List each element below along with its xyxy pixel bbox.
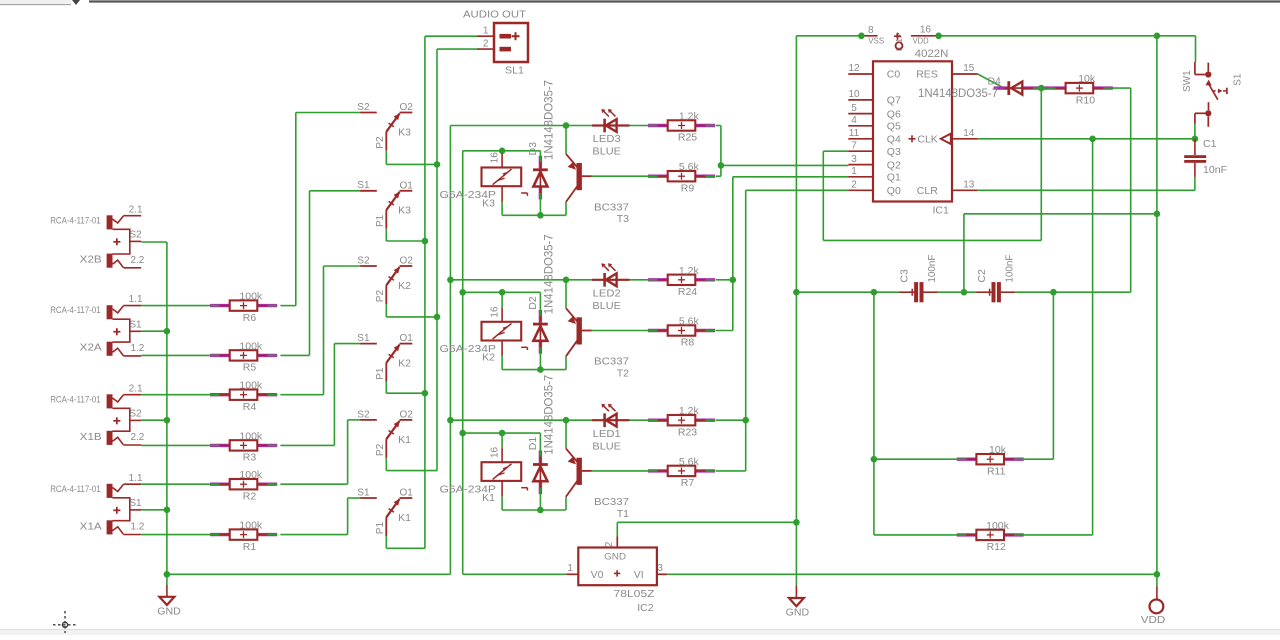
svg-text:R3: R3	[243, 452, 257, 464]
wire R3 right	[280, 444, 334, 446]
wire riser R3-K2l	[333, 344, 335, 446]
wire K3u common	[385, 151, 387, 165]
resistor R1 100k	[210, 520, 278, 553]
wire T1 collector	[565, 420, 567, 448]
wire Q3 riser up to D4 node	[1040, 88, 1042, 240]
svg-text:K3: K3	[398, 126, 411, 138]
svg-text:S2: S2	[129, 408, 142, 419]
diode D2 1N4148DO35-7	[527, 234, 555, 354]
wire K2l common	[385, 382, 387, 394]
wire CLR to C1	[1194, 177, 1196, 190]
relay contact K3 (S2-O2)	[357, 102, 413, 151]
resistor R5 100k	[210, 340, 278, 373]
svg-text:S2: S2	[129, 229, 142, 240]
svg-text:IC2: IC2	[637, 602, 654, 614]
svg-text:K1: K1	[398, 434, 411, 446]
wire riser R1-K1l	[347, 498, 349, 535]
wire LED-cathode riser	[449, 126, 451, 575]
wire R12 left	[874, 534, 957, 536]
svg-text:10: 10	[848, 89, 860, 100]
wire to LED1	[566, 419, 592, 421]
svg-text:78L05Z: 78L05Z	[614, 588, 656, 600]
svg-text:BLUE: BLUE	[592, 146, 621, 158]
svg-text:R6: R6	[243, 312, 257, 324]
svg-text:S1: S1	[1232, 73, 1243, 86]
resistor R23 1,2k	[648, 405, 716, 438]
status bar bottom strip	[0, 630, 1280, 636]
svg-text:GND: GND	[786, 606, 810, 618]
svg-text:R2: R2	[243, 490, 257, 502]
wire Q0 to IC1 pin2	[746, 189, 849, 191]
wire T3 collector	[565, 126, 567, 154]
wire vertical net SL1-1	[424, 36, 426, 548]
svg-text:R11: R11	[987, 465, 1006, 477]
svg-text:O2: O2	[400, 102, 414, 113]
svg-text:2: 2	[604, 541, 615, 547]
svg-text:1.1: 1.1	[129, 294, 143, 305]
junction	[871, 289, 878, 296]
svg-text:10k: 10k	[1078, 73, 1096, 85]
junction	[537, 366, 544, 373]
svg-text:1N4148DO35-7: 1N4148DO35-7	[543, 375, 555, 455]
wire emitter rail K3	[502, 214, 566, 216]
svg-text:S1: S1	[357, 333, 370, 344]
wire RES to D4 (diagonal)	[978, 74, 1004, 88]
ground GND (VSS rail)	[786, 598, 810, 618]
svg-text:R10: R10	[1076, 94, 1095, 106]
svg-text:Q3: Q3	[887, 146, 901, 158]
svg-text:14: 14	[963, 128, 975, 139]
svg-text:2.2: 2.2	[130, 255, 144, 266]
svg-text:100k: 100k	[239, 469, 263, 481]
wire bottom rail left part	[167, 573, 451, 575]
svg-text:Q6: Q6	[887, 108, 901, 120]
svg-text:K2: K2	[398, 358, 411, 370]
wire D2 anode	[539, 354, 541, 370]
junction	[164, 571, 171, 578]
svg-text:O2: O2	[400, 410, 414, 421]
svg-text:S1: S1	[357, 180, 370, 191]
wire LED1 row left	[450, 419, 566, 421]
wire X1A S1 to rail	[141, 509, 167, 511]
resistor R6 100k	[210, 291, 278, 324]
svg-text:1.2: 1.2	[130, 522, 144, 533]
svg-text:VSS: VSS	[868, 36, 884, 46]
browser/tab chrome top-left	[0, 0, 80, 5]
svg-text:3: 3	[657, 563, 663, 574]
wire Q3 across	[823, 239, 1041, 241]
resistor R3 100k	[210, 430, 278, 463]
svg-text:5,6k: 5,6k	[679, 316, 700, 328]
svg-text:2: 2	[483, 38, 489, 49]
svg-text:4022N: 4022N	[915, 48, 949, 60]
svg-text:RES: RES	[916, 69, 938, 81]
transistor T3 BC337	[566, 154, 629, 225]
diode D3 1N4148DO35-7	[527, 80, 555, 200]
wire riser Q2 node	[720, 126, 722, 177]
wire K1l common	[385, 536, 387, 548]
wire X1A 1.2 to R1	[141, 534, 210, 536]
svg-text:1.2: 1.2	[130, 343, 144, 354]
wire K2u to net2	[386, 316, 437, 318]
svg-text:S2: S2	[357, 102, 370, 113]
wire Q2 to IC1 pin3	[721, 164, 848, 166]
resistor R12 100k	[956, 520, 1024, 553]
wire coil K1 bottom	[501, 497, 503, 510]
svg-text:S1: S1	[357, 487, 370, 498]
junction	[447, 417, 454, 424]
junction	[422, 390, 429, 397]
svg-text:R5: R5	[243, 362, 257, 374]
switch SW1 S1	[1182, 62, 1244, 127]
wire CLK riser to R12	[1092, 139, 1094, 535]
svg-text:SW1: SW1	[1182, 70, 1193, 92]
wire K2u common	[385, 304, 387, 317]
power VDD symbol	[1141, 600, 1166, 627]
wire +5V coil riser	[462, 151, 464, 575]
svg-text:100k: 100k	[239, 291, 263, 303]
svg-text:D1: D1	[527, 437, 539, 451]
wire R10 right	[1113, 87, 1131, 89]
wire cap row left	[796, 291, 898, 293]
svg-text:T3: T3	[617, 213, 629, 225]
wire coil K2 top pin	[501, 292, 503, 307]
wire R2 right	[280, 483, 347, 485]
svg-text:K1: K1	[398, 512, 411, 524]
svg-text:RCA-4-117-01: RCA-4-117-01	[50, 215, 100, 226]
wire riser R5-K3l	[309, 191, 311, 356]
svg-text:CLK: CLK	[917, 134, 937, 146]
svg-text:R4: R4	[243, 401, 257, 413]
junction	[434, 161, 441, 168]
wire CLK net	[978, 138, 1195, 140]
resistor R8 5,6k	[648, 316, 716, 349]
resistor R9 5,6k	[648, 161, 716, 194]
wire Q3 from IC1 pin7	[823, 150, 848, 152]
wire K3l common	[385, 229, 387, 241]
wire T1 emitter	[565, 497, 567, 510]
wire T2 emitter	[565, 356, 567, 369]
svg-text:8: 8	[868, 25, 874, 36]
svg-text:P2: P2	[375, 136, 386, 149]
IC1 power gate IC1P	[861, 25, 938, 52]
svg-text:VDD: VDD	[913, 36, 929, 46]
wire SL1 pin2 to bus	[437, 48, 477, 50]
relay contact K2 (S1-O1)	[357, 333, 413, 382]
wire IC2 gnd up	[616, 522, 618, 536]
wire bottom rail right part	[667, 573, 1157, 575]
vdd stub	[1156, 586, 1158, 600]
svg-text:C3: C3	[899, 269, 911, 283]
gnd stub	[166, 585, 168, 597]
svg-text:R9: R9	[681, 182, 695, 194]
junction	[499, 148, 506, 155]
svg-text:R25: R25	[678, 132, 697, 144]
svg-text:100k: 100k	[239, 380, 263, 392]
svg-text:X1B: X1B	[80, 431, 102, 443]
svg-text:P2: P2	[375, 290, 386, 303]
svg-text:13: 13	[963, 179, 975, 190]
junction	[858, 33, 865, 40]
svg-text:16: 16	[490, 306, 501, 318]
wire CLR net	[978, 189, 1195, 191]
wire LED2 to R24	[630, 279, 648, 281]
wire to K1 S2	[348, 419, 361, 421]
wire Q1 to IC1 pin1	[733, 176, 849, 178]
junction	[537, 212, 544, 219]
wire to D1 cathode	[539, 433, 541, 450]
svg-text:O2: O2	[400, 256, 414, 267]
wire R11 left	[874, 458, 957, 460]
wire riser R2-K1u	[347, 420, 349, 484]
svg-text:1,2k: 1,2k	[679, 111, 700, 123]
wire SW1 to C1 node	[1194, 124, 1196, 139]
svg-text:5: 5	[851, 103, 857, 114]
wire R10 right riser	[1130, 88, 1132, 292]
svg-text:1N4148DO35-7: 1N4148DO35-7	[543, 234, 555, 314]
wire coil row K3	[463, 150, 541, 152]
svg-text:LED2: LED2	[593, 287, 621, 299]
wire emitter rail K1	[502, 509, 566, 511]
svg-text:RCA-4-117-01: RCA-4-117-01	[50, 394, 100, 405]
wire X2B S2 to rail	[141, 241, 167, 243]
svg-text:P2: P2	[375, 443, 386, 456]
wire T3 base to R9	[592, 175, 648, 177]
capacitor C1 10nF	[1184, 138, 1227, 177]
svg-text:100nF: 100nF	[926, 255, 938, 283]
svg-text:Q1: Q1	[887, 172, 901, 184]
svg-text:100k: 100k	[239, 340, 263, 352]
wire R9 right	[716, 175, 721, 177]
svg-text:GND: GND	[604, 552, 626, 563]
svg-text:2: 2	[851, 180, 857, 191]
wire K1l to net1	[386, 547, 425, 549]
svg-text:R8: R8	[681, 337, 695, 349]
wire to cap mid node	[963, 214, 965, 292]
junction	[742, 417, 749, 424]
wire left common rail	[166, 242, 168, 585]
svg-text:BLUE: BLUE	[592, 440, 621, 452]
wire R11 right	[1024, 458, 1054, 460]
svg-text:2.1: 2.1	[129, 383, 143, 394]
wire riser to R11 right	[1052, 292, 1054, 459]
svg-text:K2: K2	[482, 352, 495, 364]
svg-text:1N4148DO35-7: 1N4148DO35-7	[543, 80, 555, 160]
svg-text:1.1: 1.1	[129, 473, 143, 484]
svg-text:2.2: 2.2	[130, 432, 144, 443]
svg-text:1: 1	[567, 563, 573, 574]
svg-text:P1: P1	[375, 367, 386, 380]
LED LED1 BLUE	[592, 404, 630, 453]
junction	[793, 289, 800, 296]
wire R6 right	[280, 305, 295, 307]
wire to SW1	[1195, 36, 1197, 62]
wire X2A 1.1 to R6	[141, 305, 210, 307]
wire to K3 S2	[296, 112, 360, 114]
resistor R2 100k	[210, 469, 278, 502]
LED LED2 BLUE	[592, 263, 630, 312]
relay contact K1 (S2-O2)	[357, 409, 413, 458]
relay coil K2 G6A-234P	[440, 306, 528, 364]
junction	[563, 417, 570, 424]
svg-text:R23: R23	[678, 426, 697, 438]
svg-text:K3: K3	[398, 205, 411, 217]
wire X1B S2 to rail	[141, 419, 167, 421]
junction	[1192, 136, 1199, 143]
transistor T2 BC337	[566, 308, 629, 379]
wire R5 right	[280, 354, 309, 356]
wire coil K3 top pin	[501, 151, 503, 154]
svg-text:D3: D3	[527, 142, 539, 156]
wire to K2 S1	[334, 343, 360, 345]
resistor R24 1,2k	[648, 265, 716, 298]
junction	[563, 277, 570, 284]
diode D1 1N4148DO35-7	[527, 375, 555, 495]
wire Q3 riser down	[822, 151, 824, 240]
ground GND (left rail)	[157, 597, 181, 618]
wire to D2 cathode	[539, 292, 541, 310]
svg-text:K3: K3	[482, 197, 495, 209]
svg-text:4: 4	[851, 115, 857, 126]
svg-text:11: 11	[849, 128, 860, 139]
svg-text:15: 15	[963, 63, 975, 74]
wire T2 base to R8	[592, 330, 648, 332]
svg-text:GND: GND	[157, 606, 181, 618]
wire VDD vertical rail	[1156, 36, 1158, 586]
svg-text:1,2k: 1,2k	[679, 405, 700, 417]
svg-text:C1: C1	[1203, 138, 1217, 150]
wire R8 right	[716, 330, 733, 332]
junction	[459, 430, 466, 437]
wire R1 right	[280, 534, 347, 536]
svg-text:D4: D4	[987, 76, 1001, 88]
svg-text:Q7: Q7	[887, 95, 901, 107]
junction	[164, 328, 171, 335]
svg-text:BC337: BC337	[594, 356, 629, 368]
svg-text:100k: 100k	[239, 520, 263, 532]
junction	[459, 289, 466, 296]
junction	[961, 289, 968, 296]
junction	[563, 122, 570, 129]
pin wire D4 cathode	[1023, 86, 1046, 89]
svg-text:1N4148DO35-7: 1N4148DO35-7	[918, 88, 998, 100]
svg-text:C2: C2	[976, 269, 988, 283]
wire coil row K1	[463, 432, 541, 434]
junction	[730, 277, 737, 284]
svg-text:RCA-4-117-01: RCA-4-117-01	[50, 484, 100, 495]
svg-text:O1: O1	[400, 488, 414, 499]
svg-text:S2: S2	[357, 409, 370, 420]
svg-text:R7: R7	[681, 477, 695, 489]
junction	[793, 519, 800, 526]
svg-text:RCA-4-117-01: RCA-4-117-01	[50, 305, 100, 316]
IC IC2 78L05Z	[566, 537, 667, 614]
svg-text:K2: K2	[398, 280, 411, 292]
wire coil K2 bottom	[501, 356, 503, 369]
junction	[718, 162, 725, 169]
junction	[537, 507, 544, 514]
svg-text:IC1: IC1	[933, 205, 950, 217]
wire to K3 S1	[310, 190, 361, 192]
wire K3l to net1	[386, 240, 425, 242]
svg-text:5,6k: 5,6k	[679, 456, 700, 468]
wire R24 right	[716, 279, 733, 281]
svg-text:7: 7	[851, 140, 857, 151]
svg-text:Q5: Q5	[887, 121, 901, 133]
svg-text:100k: 100k	[986, 520, 1010, 532]
window top border	[89, 0, 1280, 2]
wire to K2 S2	[324, 265, 361, 267]
wire D3 anode	[539, 199, 541, 215]
svg-text:1,2k: 1,2k	[679, 265, 700, 277]
svg-text:O1: O1	[400, 333, 414, 344]
svg-text:BC337: BC337	[594, 201, 629, 213]
junction	[164, 507, 171, 514]
svg-text:Q0: Q0	[887, 185, 901, 197]
wire R12 right	[1024, 534, 1093, 536]
svg-text:16: 16	[920, 25, 932, 36]
svg-text:10nF: 10nF	[1203, 164, 1227, 176]
relay contact K3 (S1-O1)	[357, 180, 413, 229]
wire T1 base to R7	[592, 470, 648, 472]
connector X1A RCA-4-117-01	[50, 473, 145, 535]
wire R7 right	[716, 470, 746, 472]
svg-text:V0: V0	[591, 569, 604, 581]
junction	[422, 238, 429, 245]
LED LED3 BLUE	[592, 109, 630, 158]
junction	[1089, 136, 1096, 143]
svg-text:S1: S1	[129, 498, 142, 509]
wire VSS vertical rail	[795, 36, 797, 586]
wire riser R6-K3u	[295, 113, 297, 306]
wire vertical net SL1-2	[436, 49, 438, 471]
relay contact K1 (S1-O1)	[357, 487, 413, 536]
svg-text:T2: T2	[617, 368, 629, 380]
wire K2l to net1	[386, 392, 425, 394]
junction	[935, 33, 942, 40]
wire R23 right	[716, 419, 746, 421]
wire K3u to net2	[386, 163, 437, 165]
svg-text:S1: S1	[129, 319, 142, 330]
junction	[164, 417, 171, 424]
junction	[447, 277, 454, 284]
svg-text:K1: K1	[482, 492, 495, 504]
junction	[871, 456, 878, 463]
origin crosshair cursor	[53, 611, 77, 633]
wire R25 right	[716, 125, 721, 127]
svg-text:1: 1	[851, 166, 857, 177]
svg-text:R24: R24	[678, 286, 697, 298]
gnd stub	[795, 586, 797, 598]
pin overlay	[1023, 87, 1033, 89]
wire SL1 pin1 to bus	[425, 35, 477, 37]
junction	[1154, 211, 1161, 218]
svg-text:S2: S2	[357, 255, 370, 266]
diode D4 1N4148DO35-7	[918, 76, 1023, 101]
wire LED3 row left	[450, 125, 566, 127]
IC U1 4022N (IC1)	[848, 48, 977, 217]
svg-text:C0: C0	[887, 69, 901, 81]
svg-text:X2B: X2B	[80, 254, 102, 266]
svg-text:R1: R1	[243, 541, 257, 553]
wire LED3 to R25	[630, 125, 648, 127]
relay coil K1 G6A-234P	[440, 446, 528, 504]
wire cap row right	[1015, 291, 1131, 293]
svg-text:CLR: CLR	[917, 185, 938, 197]
svg-text:R12: R12	[987, 541, 1006, 553]
svg-text:VI: VI	[634, 569, 644, 581]
junction	[1038, 85, 1045, 92]
